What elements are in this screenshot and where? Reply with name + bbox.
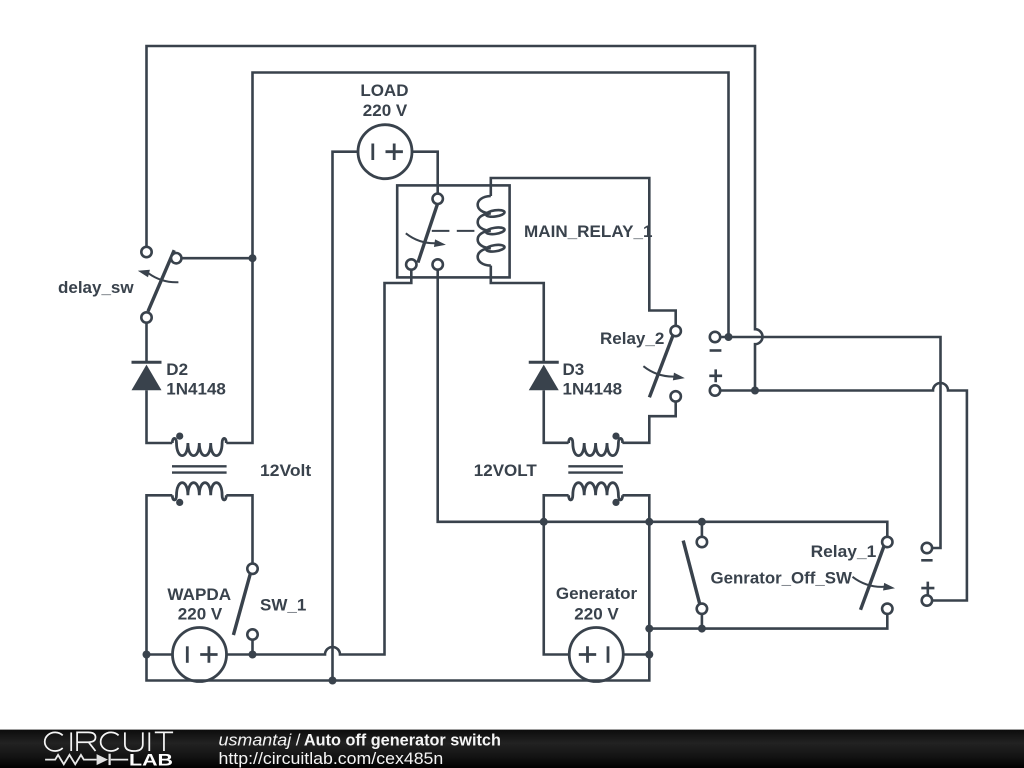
svg-text:LOAD: LOAD <box>360 81 408 100</box>
svg-text:Relay_2: Relay_2 <box>600 329 664 348</box>
svg-text:220 V: 220 V <box>574 605 619 624</box>
svg-text:SW_1: SW_1 <box>260 595 306 614</box>
svg-text:1N4148: 1N4148 <box>166 380 226 399</box>
svg-text:Generator: Generator <box>556 584 638 603</box>
svg-text:12VOLT: 12VOLT <box>474 461 538 480</box>
svg-text:WAPDA: WAPDA <box>167 585 231 604</box>
svg-text:12Volt: 12Volt <box>260 461 312 480</box>
svg-text:/: / <box>296 731 301 750</box>
svg-text:220 V: 220 V <box>363 101 408 120</box>
svg-text:Relay_1: Relay_1 <box>811 542 877 561</box>
svg-text:LAB: LAB <box>129 750 173 768</box>
svg-text:D2: D2 <box>166 360 188 379</box>
svg-text:1N4148: 1N4148 <box>563 380 623 399</box>
svg-text:Genrator_Off_SW: Genrator_Off_SW <box>711 568 853 587</box>
svg-text:MAIN_RELAY_1: MAIN_RELAY_1 <box>524 222 653 241</box>
svg-text:D3: D3 <box>563 360 585 379</box>
svg-text:220 V: 220 V <box>178 605 223 624</box>
svg-text:Auto off generator switch: Auto off generator switch <box>304 731 501 750</box>
svg-text:http://circuitlab.com/cex485n: http://circuitlab.com/cex485n <box>219 749 444 768</box>
svg-text:delay_sw: delay_sw <box>58 278 134 297</box>
svg-text:usmantaj: usmantaj <box>219 731 293 750</box>
